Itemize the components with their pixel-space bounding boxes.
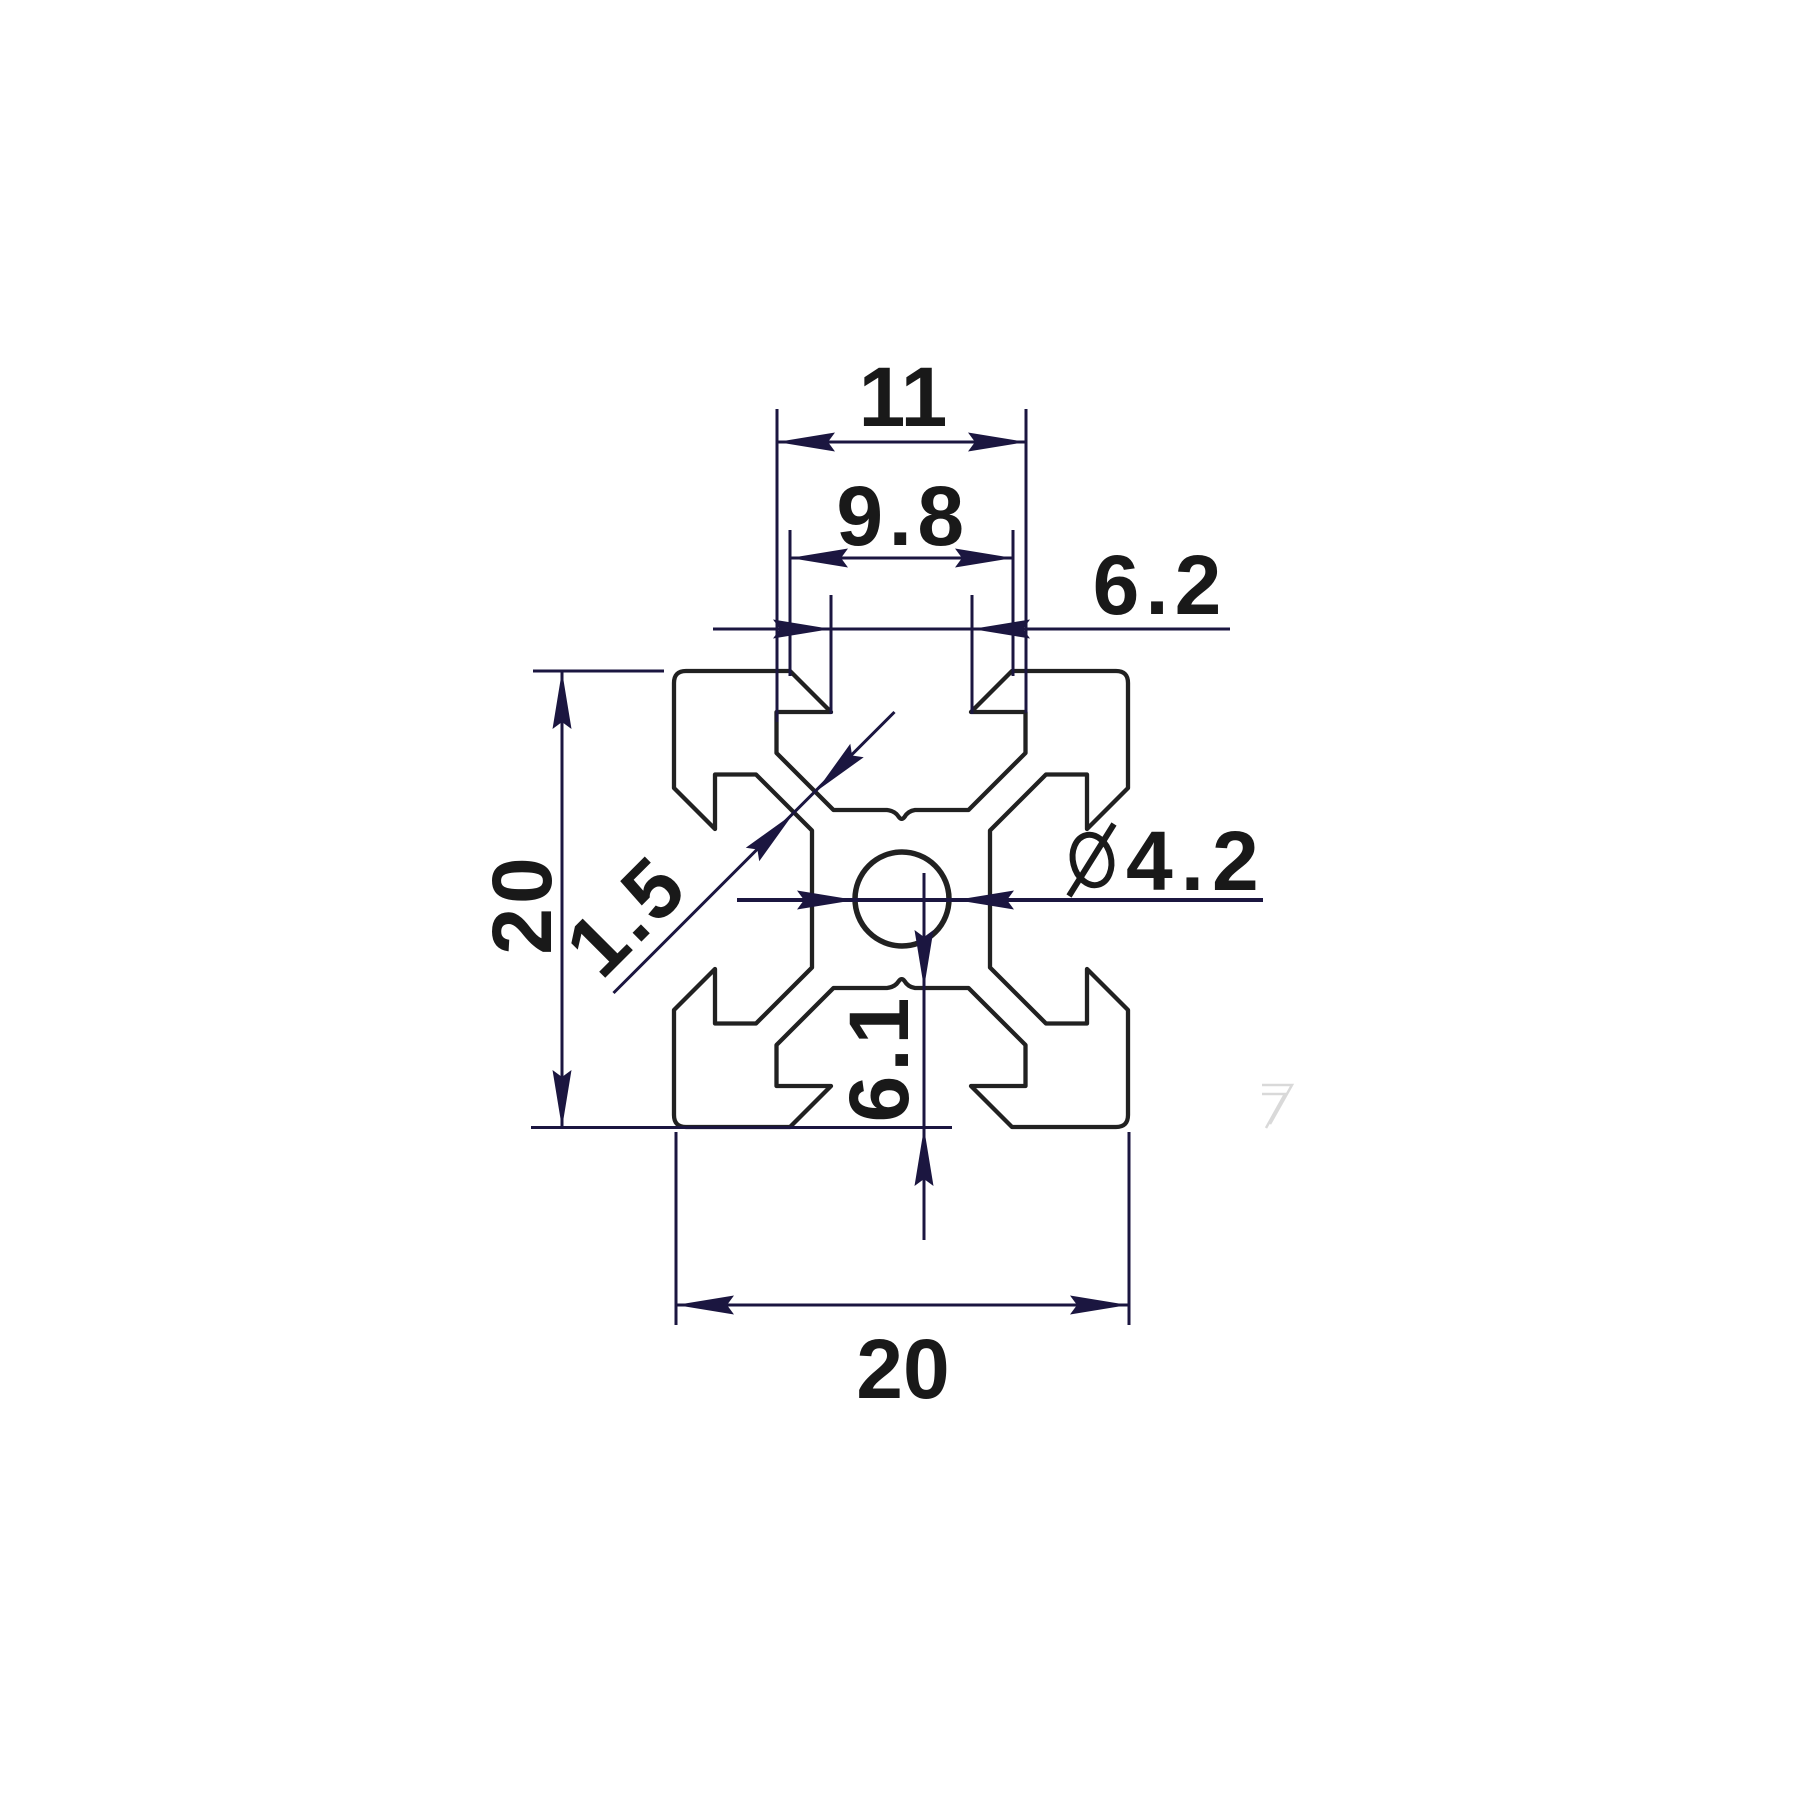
dimension 11: arrow left xyxy=(777,433,835,452)
dimension Ø4.2: diameter symbol xyxy=(1067,824,1116,896)
watermark glyph 7 (faint) xyxy=(1262,1085,1292,1128)
dimension Ø4.2: arrow left (outside, pointing right) xyxy=(797,891,855,910)
dimension 20 vertical: arrow down xyxy=(553,1070,572,1128)
dimension 11: dimension line xyxy=(777,441,1026,444)
dimension 6.1: arrow up (outside, tip at profile bottom) xyxy=(915,1128,934,1186)
svg-text:6.1: 6.1 xyxy=(832,994,926,1123)
dimension 6.2: dimension line xyxy=(713,628,1230,631)
center hole circle Ø4.2 xyxy=(855,852,949,946)
dimension 20 bottom: arrow right xyxy=(1070,1296,1128,1315)
svg-text:11: 11 xyxy=(859,350,948,444)
dimension 20 vertical: extension line bottom xyxy=(531,1126,952,1129)
svg-text:20: 20 xyxy=(475,853,569,954)
dimension 11: extension line left xyxy=(776,409,779,722)
dimension 1.5: arrow lower (pointing up-right at web) xyxy=(746,807,800,861)
dimension Ø4.2: arrow right (outside, pointing left) xyxy=(956,891,1014,910)
svg-text:4.2: 4.2 xyxy=(1126,814,1267,908)
dimension 6.1: arrow down (outside, tip at slot bottom) xyxy=(915,930,934,988)
svg-text:20: 20 xyxy=(856,1322,949,1416)
dimension 6.2: extension line left xyxy=(830,595,833,714)
dimension 1.5: arrow upper (pointing down-left at web) xyxy=(809,744,863,798)
dimension 6.1: dimension line (vertical) xyxy=(923,873,926,1240)
dimension 20 vertical: extension line top xyxy=(533,670,664,673)
dimension 9.8: arrow right xyxy=(955,549,1013,568)
dimension 9.8: extension line left xyxy=(789,530,792,676)
dimension 20 bottom: dimension line xyxy=(676,1304,1128,1307)
dimension 9.8: extension line right xyxy=(1012,530,1015,676)
dimension 20 vertical: dimension line xyxy=(561,671,564,1128)
dimension 11: arrow right xyxy=(968,433,1026,452)
dimension 20 bottom: arrow left xyxy=(676,1296,734,1315)
dimension 20 bottom: extension line right xyxy=(1128,1132,1131,1325)
dimension 1.5: dimension line (diagonal) xyxy=(614,712,895,993)
dimension Ø4.2: dimension line xyxy=(737,898,1263,902)
dimension 20 bottom: extension line left xyxy=(675,1132,678,1325)
dimension 11: extension line right xyxy=(1025,409,1028,713)
dimension 6.2: arrow left (outside, pointing right) xyxy=(773,620,831,639)
profile outline: 2020 T-slot extrusion cross-section xyxy=(674,671,1128,1127)
dimension 20 vertical: arrow up xyxy=(553,671,572,729)
dimension 6.2: arrow right (outside, pointing left) xyxy=(972,620,1030,639)
svg-text:9.8: 9.8 xyxy=(836,469,969,563)
dimension 9.8: arrow left xyxy=(790,549,848,568)
dimension 9.8: dimension line xyxy=(790,557,1013,560)
svg-text:6.2: 6.2 xyxy=(1093,538,1228,632)
dimension 6.2: extension line right xyxy=(971,595,974,714)
